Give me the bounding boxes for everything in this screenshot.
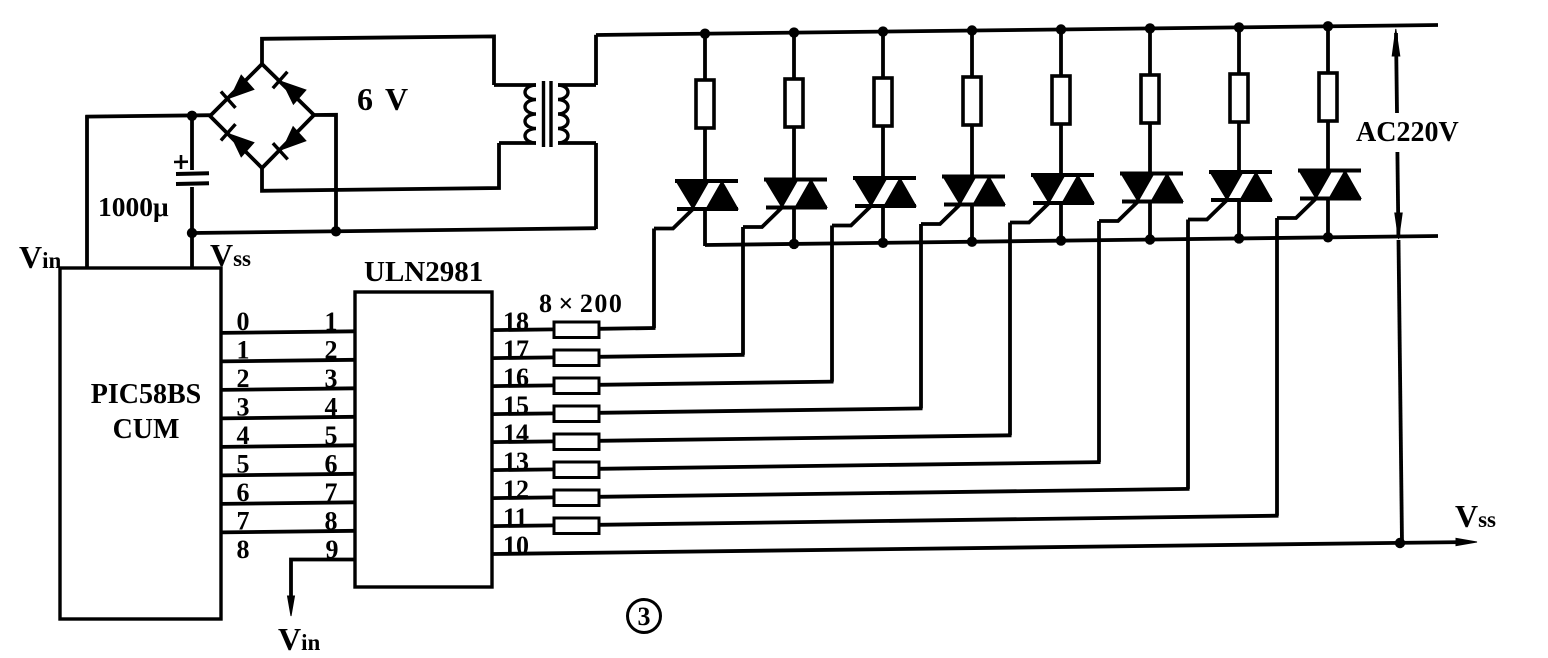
wire resistor R3 to triac	[881, 125, 885, 179]
transformer primary coil (AC220V)	[558, 85, 568, 143]
wire ULN pin 10 to Vss	[492, 542, 1462, 554]
wire PIC pin 6 to ULN pin 7	[221, 502, 355, 504]
arrowhead down Vin	[288, 596, 295, 616]
wire resistor to triac 1 gate	[599, 326, 656, 331]
wire triac 2 to bottom rail	[792, 208, 796, 245]
arrowhead down AC220V	[1395, 213, 1402, 239]
wire resistor R7 to triac	[1237, 121, 1241, 173]
node junction triac 8 bottom rail	[1323, 232, 1333, 242]
resistor R11 200ohm	[554, 518, 599, 534]
wire resistor R2 to triac	[792, 126, 796, 181]
wire triac 7 to bottom rail	[1237, 200, 1241, 239]
svg-text:6: 6	[237, 478, 250, 507]
wire PIC pin 4 to ULN pin 5	[221, 445, 355, 447]
diode D2 top-right	[282, 82, 306, 104]
node junction triac 5 top rail	[1056, 24, 1066, 34]
wire resistor to triac 7 gate	[599, 489, 1190, 497]
wire triac 3 to bottom rail	[881, 206, 885, 244]
wire PIC pin 7 to ULN pin 8	[221, 531, 355, 533]
svg-text:1: 1	[237, 336, 250, 365]
svg-text:1: 1	[325, 307, 338, 336]
diode D3 bottom-left	[230, 134, 254, 157]
svg-text:4: 4	[237, 421, 250, 450]
label figure number 3	[628, 600, 661, 633]
svg-text:6: 6	[325, 450, 338, 479]
wire triac 2 gate	[743, 207, 783, 228]
transformer core	[542, 81, 545, 147]
wire triac 5 to bottom rail	[1059, 203, 1063, 242]
wire top rail to resistor R1	[703, 34, 707, 81]
wire triac 1 to bottom rail	[703, 209, 707, 246]
wire ULN pin 16 stub	[492, 383, 554, 388]
triac V3	[853, 176, 916, 180]
wire ULN pin 9 to Vin	[291, 560, 355, 603]
svg-text:3: 3	[325, 364, 338, 393]
resistor R14 200ohm	[554, 434, 599, 450]
wire triac 4 to bottom rail	[970, 205, 974, 243]
svg-text:PIC58BS: PIC58BS	[91, 379, 201, 410]
resistor R6 snubber	[1141, 75, 1159, 123]
node junction Vss line	[1395, 538, 1405, 548]
node junction triac 4 top rail	[967, 25, 977, 35]
resistor R7 snubber	[1230, 74, 1248, 122]
resistor R12 200ohm	[554, 490, 599, 506]
wire PIC pin 3 to ULN pin 4	[221, 417, 355, 419]
IC U1 PIC58BS CUM box	[60, 268, 221, 619]
wire resistor to triac 2 gate	[599, 355, 745, 357]
wire top rail to resistor R6	[1148, 28, 1152, 76]
wire triac 1 gate	[654, 208, 694, 229]
wire resistor R8 to triac	[1326, 120, 1330, 172]
wire triac 7 gate	[1188, 199, 1228, 220]
triac V4	[942, 175, 1005, 179]
wire AC220V arrow line upper	[1396, 33, 1397, 113]
wire resistor to triac 8 gate	[599, 516, 1279, 525]
resistor R8 snubber	[1319, 73, 1337, 121]
triac V7	[1209, 170, 1272, 174]
wire triac 8 to bottom rail	[1326, 199, 1330, 239]
wire resistor to triac 4 gate	[599, 408, 923, 412]
svg-text:CUM: CUM	[113, 414, 180, 445]
triac V2	[764, 178, 827, 182]
wire resistor R4 to triac	[970, 124, 974, 178]
svg-text:ULN2981: ULN2981	[364, 256, 483, 288]
resistor R16 200ohm	[554, 378, 599, 394]
svg-text:3: 3	[237, 393, 250, 422]
wire ULN pin 18 stub	[492, 327, 554, 332]
wire triac 8 gate	[1277, 198, 1317, 219]
triac V6	[1120, 172, 1183, 176]
svg-text:3: 3	[638, 602, 651, 631]
wire bottom rail to Vss line	[1399, 240, 1403, 543]
wire bridge right to Vss rail	[314, 115, 336, 232]
wire Vss rail left	[192, 228, 596, 233]
wire AC220V arrow line lower	[1397, 152, 1398, 236]
wire PIC pin 5 to ULN pin 6	[221, 474, 355, 476]
resistor R17 200ohm	[554, 350, 599, 366]
node junction triac 2 top rail	[789, 27, 799, 37]
wire ULN pin 11 stub	[492, 524, 554, 528]
node junction triac 7 top rail	[1234, 22, 1244, 32]
resistor R3 snubber	[874, 78, 892, 126]
svg-text:0: 0	[237, 307, 250, 336]
resistor R13 200ohm	[554, 462, 599, 478]
wire resistor R6 to triac	[1148, 122, 1152, 175]
wire resistor to triac 3 gate	[599, 382, 834, 385]
wire PIC pin 1 to ULN pin 2	[221, 360, 355, 362]
wire bridge top to transformer	[262, 36, 494, 85]
wire top rail to resistor R7	[1237, 27, 1241, 75]
node junction triac 6 bottom rail	[1145, 234, 1155, 244]
label AC220V	[1354, 116, 1466, 144]
arrowhead up AC220V	[1392, 29, 1400, 56]
resistor R15 200ohm	[554, 406, 599, 422]
triac V1	[675, 179, 738, 183]
resistor R4 snubber	[963, 77, 981, 125]
node junction triac 6 top rail	[1145, 23, 1155, 33]
wire resistor R5 to triac	[1059, 123, 1063, 176]
wire triac 6 to bottom rail	[1148, 202, 1152, 241]
wire Vss into PIC	[190, 233, 194, 268]
bridge diamond wires	[210, 64, 314, 168]
wire top rail to resistor R8	[1326, 26, 1330, 74]
wire AC bottom rail	[705, 236, 1438, 245]
wire top rail to resistor R2	[792, 33, 796, 80]
wire top rail to resistor R5	[1059, 30, 1063, 78]
node junction triac 2 bottom rail	[789, 239, 799, 249]
svg-text:8: 8	[325, 507, 338, 536]
triac V5	[1031, 173, 1094, 177]
wire PIC pin 0 to ULN pin 1	[221, 331, 355, 333]
wire triac 5 gate	[1010, 202, 1050, 223]
resistor R5 snubber	[1052, 76, 1070, 124]
wire ULN pin 12 stub	[492, 495, 554, 500]
wire triac 3 gate	[832, 205, 872, 226]
node junction triac 5 bottom rail	[1056, 235, 1066, 245]
wire ULN pin 17 stub	[492, 355, 554, 360]
svg-text:8×200: 8×200	[539, 289, 623, 318]
wire PIC pin 2 to ULN pin 3	[221, 388, 355, 390]
node junction triac 7 bottom rail	[1234, 233, 1244, 243]
wire primary top to AC top rail	[594, 35, 598, 85]
svg-text:5: 5	[325, 421, 338, 450]
wire triac 6 gate	[1099, 201, 1139, 222]
node junction triac 8 top rail	[1323, 21, 1333, 31]
diode D1 top-left	[230, 75, 254, 98]
svg-text:1000μ: 1000μ	[98, 191, 169, 222]
wire ULN pin 15 stub	[492, 411, 554, 416]
wire AC top rail	[596, 25, 1438, 35]
diode D4 bottom-right	[283, 127, 306, 150]
svg-text:5: 5	[237, 450, 250, 479]
svg-text:AC220V: AC220V	[1356, 117, 1459, 148]
node junction cap bottom / Vss	[187, 228, 197, 238]
svg-text:6V: 6V	[357, 81, 420, 117]
wire Vin from node to PIC	[85, 115, 89, 268]
arrowhead right Vss	[1456, 538, 1477, 545]
resistor R2 snubber	[785, 79, 803, 127]
wire triac 4 gate	[921, 204, 961, 225]
transformer secondary coil (6V)	[525, 85, 536, 143]
node junction triac 3 top rail	[878, 26, 888, 36]
wire primary bottom to Vss rail	[594, 143, 598, 229]
svg-text:4: 4	[325, 393, 338, 422]
node junction triac 4 bottom rail	[967, 237, 977, 247]
svg-text:8: 8	[237, 535, 250, 564]
svg-text:2: 2	[325, 336, 338, 365]
wire resistor R1 to triac	[703, 127, 707, 182]
node junction cap top	[187, 111, 197, 121]
wire ULN pin 13 stub	[492, 467, 554, 472]
resistor R18 200ohm	[554, 322, 599, 338]
wire bridge bottom to transformer	[262, 143, 499, 191]
wire top rail to resistor R4	[970, 31, 974, 79]
node junction bridge right on Vss rail	[331, 226, 341, 236]
wire resistor to triac 5 gate	[599, 435, 1012, 441]
svg-text:2: 2	[237, 364, 250, 393]
wire resistor to triac 6 gate	[599, 462, 1101, 469]
svg-text:7: 7	[237, 507, 250, 536]
node junction triac 1 top rail	[700, 29, 710, 39]
wire top rail to resistor R3	[881, 32, 885, 79]
wire ULN pin 14 stub	[492, 439, 554, 444]
resistor R1 snubber	[696, 80, 714, 128]
triac V8	[1298, 169, 1361, 173]
node junction triac 3 bottom rail	[878, 238, 888, 248]
svg-text:7: 7	[325, 478, 338, 507]
IC U2 ULN2981 box	[355, 292, 492, 587]
capacitor C1 1000u	[190, 115, 194, 170]
